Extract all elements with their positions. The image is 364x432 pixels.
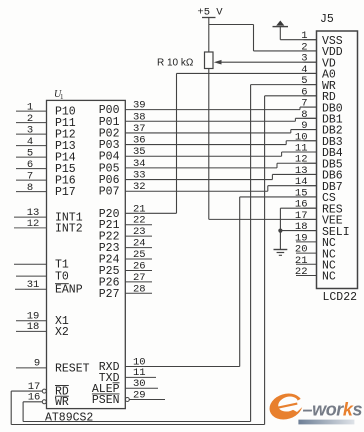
svg-text:6: 6	[301, 86, 307, 98]
wire pin 11 stub at connector	[304, 151, 317, 153]
ground symbol top (VSS)	[276, 21, 284, 26]
svg-text:13: 13	[295, 165, 308, 177]
wire pin 10 stub at connector	[304, 140, 317, 142]
e-works watermark logo	[266, 390, 362, 425]
svg-text:7: 7	[27, 171, 33, 183]
wire into VSS pin 1	[280, 39, 316, 41]
wire vertical to VDD pin 2	[253, 25, 255, 51]
wire RES vertical down	[279, 208, 281, 249]
wire pin 9 stub (RESET)	[16, 367, 47, 369]
wire pin 7 stub at connector	[304, 106, 317, 108]
wire pin 16 stub at connector	[304, 207, 317, 209]
svg-text:18: 18	[295, 221, 308, 233]
svg-text:P27: P27	[99, 288, 120, 301]
svg-text:R 10 kΩ: R 10 kΩ	[157, 58, 194, 69]
wire P04 data run	[125, 155, 281, 157]
wire PSEN stub	[129, 399, 165, 401]
svg-text:22: 22	[295, 266, 308, 278]
wire into DB7 pin 14	[268, 185, 317, 187]
wire pin 8 stub (P17)	[16, 191, 47, 193]
svg-text:21: 21	[295, 255, 308, 267]
wire CS pin 15	[240, 196, 317, 198]
wire pin 22 stub at connector	[296, 275, 317, 277]
wire into DB1 pin 8	[295, 117, 316, 119]
wire into DB5 pin 12	[277, 162, 317, 164]
svg-text:7: 7	[301, 98, 307, 110]
wire vertical A0 to P20	[176, 73, 178, 213]
wire pin 31 stub (EA/VP)	[15, 288, 47, 290]
wire pin 13 stub at connector	[304, 173, 317, 175]
wire T1 stub	[14, 263, 47, 265]
svg-text:NC: NC	[322, 271, 336, 284]
wire pin 5 stub at connector	[304, 84, 317, 86]
wire P05 data run	[125, 167, 277, 169]
wire pin 12 stub (INT2)	[14, 227, 47, 229]
svg-text:8: 8	[301, 109, 307, 121]
svg-text:16: 16	[295, 199, 308, 211]
wire pin 3 stub at connector	[304, 61, 317, 63]
svg-text:8: 8	[27, 182, 33, 194]
resistor R body	[205, 52, 214, 69]
wire into VDD pin 2	[254, 50, 317, 52]
wire P27 stub	[125, 292, 152, 294]
svg-text:X2: X2	[55, 326, 69, 339]
wire T0 stub	[16, 275, 47, 277]
svg-text:EANP: EANP	[55, 284, 83, 297]
svg-text:19: 19	[295, 232, 308, 244]
wire WR vertical left	[22, 402, 24, 422]
svg-text:20: 20	[295, 244, 308, 256]
svg-text:–works: –works	[303, 399, 363, 419]
svg-text:10: 10	[295, 131, 308, 143]
wire pin 19 stub at connector	[296, 241, 317, 243]
svg-text:4: 4	[27, 136, 33, 148]
svg-text:+5 V: +5 V	[197, 7, 223, 19]
wire P22 stub	[125, 235, 152, 237]
wire into DB6 pin 13	[272, 173, 316, 175]
wire pin 18 stub at connector	[304, 230, 317, 232]
wire RD into chip pin 17	[11, 390, 42, 392]
junction dot on SELI	[278, 229, 282, 233]
wire RD pin 6	[265, 95, 317, 97]
wire pin 8 stub at connector	[304, 117, 317, 119]
wire pin 7 stub (P16)	[16, 179, 47, 181]
wire CS vertical	[239, 197, 241, 367]
svg-text:INT2: INT2	[55, 222, 83, 235]
wire +5V branch to VDD	[209, 24, 254, 26]
svg-text:11: 11	[295, 143, 308, 155]
wire pin 20 stub at connector	[296, 252, 317, 254]
svg-text:PSEN: PSEN	[92, 394, 120, 407]
svg-text:6: 6	[27, 159, 33, 171]
wire pin 19 stub (X1)	[16, 320, 47, 322]
svg-text:4: 4	[301, 64, 307, 76]
wire RD vertical right	[264, 96, 266, 425]
wire pin 3 stub (P12)	[16, 133, 47, 135]
MCU U1 body	[47, 100, 126, 408]
svg-text:31: 31	[27, 279, 40, 291]
wire pin 1 stub at connector	[304, 39, 317, 41]
wire resistor bottom down to VEE	[208, 69, 210, 220]
wire into DB3 pin 10	[286, 140, 316, 142]
svg-text:1: 1	[301, 30, 307, 42]
svg-text:9: 9	[301, 120, 307, 132]
wire pin 4 stub at connector	[304, 72, 317, 74]
wire VEE pin 17	[209, 218, 317, 220]
wire P00 data run	[125, 109, 300, 111]
wire pin 14 stub at connector	[304, 185, 317, 187]
wire RXD run to CS	[125, 366, 239, 368]
svg-text:2: 2	[301, 41, 307, 53]
inversion bubble pin 16	[42, 400, 46, 404]
wire SELI pin 18	[280, 230, 316, 232]
svg-text:5: 5	[27, 148, 33, 160]
wire P20 to vertical	[125, 212, 176, 214]
svg-text:9: 9	[34, 358, 40, 370]
wire pin 5 stub (P14)	[16, 156, 47, 158]
wire RES pin 16	[280, 207, 316, 209]
wire P02 data run	[125, 132, 290, 134]
wire into DB0 pin 7	[300, 106, 317, 108]
wire pin 12 stub at connector	[304, 162, 317, 164]
wire TXD stub	[125, 376, 156, 378]
+5V rail bar	[202, 17, 216, 19]
wire P24 stub	[125, 258, 152, 260]
svg-text:5: 5	[301, 75, 307, 87]
svg-text:12: 12	[27, 218, 40, 230]
wire pin 15 stub at connector	[304, 196, 317, 198]
svg-text:P17: P17	[55, 186, 76, 199]
svg-text:T0: T0	[55, 271, 69, 284]
wire RD bottom run	[11, 424, 264, 426]
inversion bubble pin 17	[42, 389, 46, 393]
wire pin 2 stub (P11)	[16, 122, 47, 124]
svg-text:RESET: RESET	[55, 362, 90, 375]
wiper arrow to VD pin 3	[221, 61, 317, 63]
svg-text:P07: P07	[99, 186, 120, 199]
wire pin 13 stub (INT1)	[14, 216, 47, 218]
wire ground to VSS	[279, 27, 281, 40]
wire WR into chip pin 16	[23, 401, 42, 403]
wire pin 4 stub (P13)	[16, 145, 47, 147]
wire into DB2 pin 9	[291, 129, 317, 131]
svg-text:12: 12	[295, 154, 308, 166]
svg-text:17: 17	[295, 210, 308, 222]
wire pin 21 stub at connector	[296, 263, 317, 265]
wire pin 6 stub (P15)	[16, 168, 47, 170]
wire into DB4 pin 11	[282, 151, 317, 153]
wire P06 data run	[125, 179, 272, 181]
connector J5 body	[317, 31, 358, 289]
wire A0 pin 4	[177, 72, 317, 74]
wire pin 2 stub at connector	[304, 50, 317, 52]
wire pin 18 stub (X2)	[16, 330, 47, 332]
svg-text:18: 18	[27, 321, 40, 333]
svg-text:3: 3	[27, 125, 33, 137]
svg-text:15: 15	[295, 187, 308, 199]
wire pin 9 stub at connector	[304, 129, 317, 131]
wire P21 stub	[125, 224, 152, 226]
wire P26 stub	[125, 281, 152, 283]
wire P01 data run	[125, 120, 295, 122]
svg-text:3: 3	[301, 53, 307, 65]
wire P03 data run	[125, 144, 286, 146]
wire pin 6 stub at connector	[304, 95, 317, 97]
wire ALEP stub	[125, 387, 158, 389]
wire RD vertical left	[10, 391, 12, 424]
wire WR vertical right	[250, 85, 252, 422]
svg-text:LCD22: LCD22	[323, 291, 358, 304]
svg-text:2: 2	[27, 113, 33, 125]
svg-text:1: 1	[27, 102, 33, 114]
wire P07 data run	[125, 190, 267, 192]
wire pin 1 stub (P10)	[16, 110, 47, 112]
wire +5V down to resistor	[208, 18, 210, 53]
inversion bubble pin 29	[125, 398, 129, 402]
wire P23 stub	[125, 247, 152, 249]
svg-text:WR: WR	[55, 396, 69, 409]
wire WR bottom run	[23, 421, 251, 423]
svg-text:J5: J5	[320, 13, 334, 26]
wire P25 stub	[125, 269, 152, 271]
svg-text:AT89CS2: AT89CS2	[45, 412, 93, 425]
wire pin 17 stub at connector	[304, 218, 317, 220]
wire WR pin 5	[251, 84, 317, 86]
ground symbol bottom	[274, 249, 288, 251]
svg-text:14: 14	[295, 176, 308, 188]
